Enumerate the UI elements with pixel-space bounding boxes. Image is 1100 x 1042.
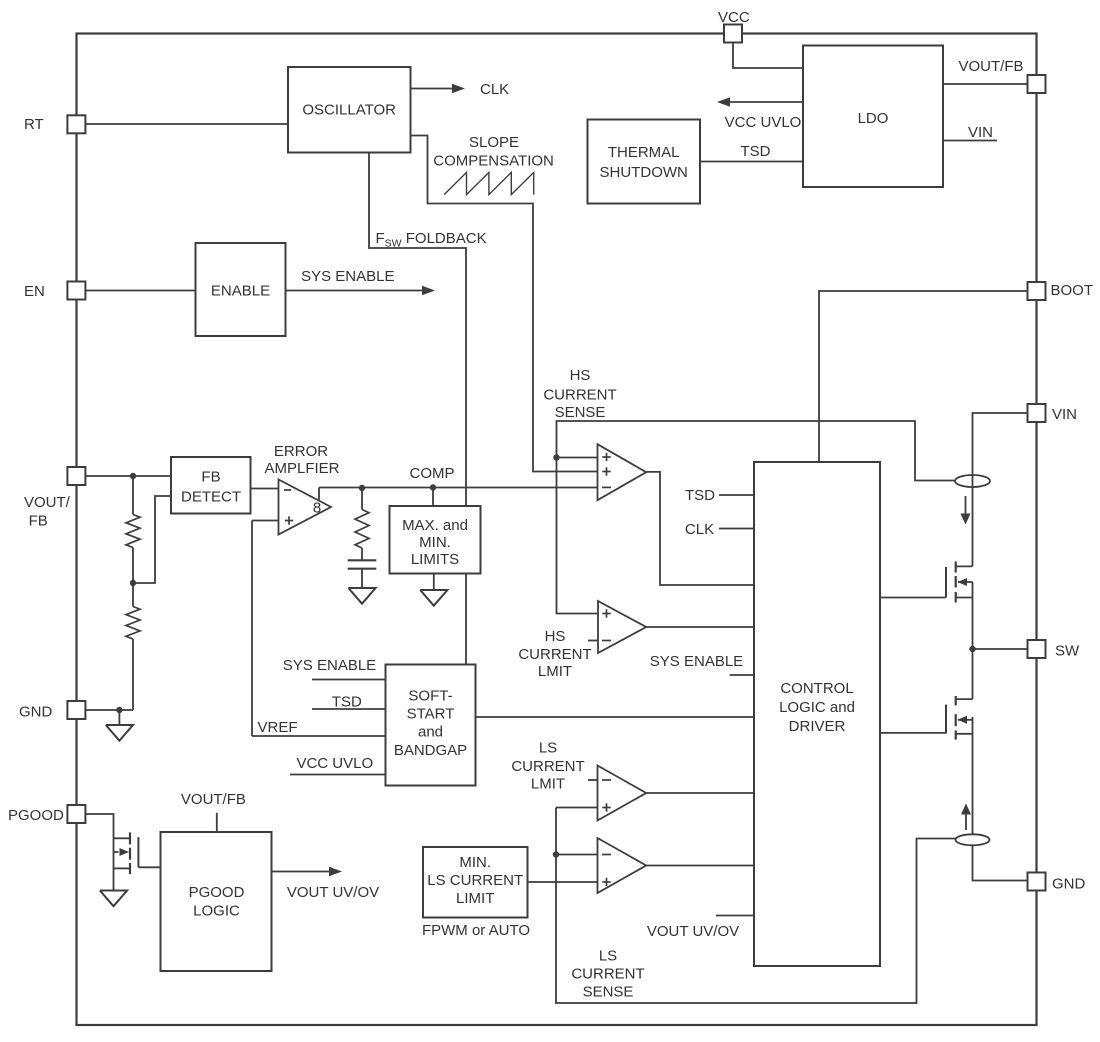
svg-text:8: 8: [313, 500, 321, 517]
svg-text:AMPLFIER: AMPLFIER: [264, 460, 339, 477]
svg-text:MIN.: MIN.: [459, 854, 491, 871]
svg-text:LS CURRENT: LS CURRENT: [427, 872, 523, 889]
svg-text:CURRENT: CURRENT: [518, 646, 591, 663]
svg-text:START: START: [407, 706, 455, 723]
svg-text:LIMITS: LIMITS: [411, 551, 459, 568]
svg-text:LS: LS: [539, 740, 557, 757]
svg-text:CURRENT: CURRENT: [543, 387, 616, 404]
svg-text:CONTROL: CONTROL: [780, 680, 853, 697]
svg-text:LOGIC: LOGIC: [193, 903, 240, 920]
svg-text:OSCILLATOR: OSCILLATOR: [302, 102, 396, 119]
svg-text:THERMAL: THERMAL: [608, 144, 680, 161]
svg-text:DETECT: DETECT: [181, 489, 241, 506]
svg-text:VCC: VCC: [718, 9, 750, 26]
svg-text:CURRENT: CURRENT: [511, 758, 584, 775]
svg-text:LIMIT: LIMIT: [456, 890, 494, 907]
svg-text:VREF: VREF: [257, 719, 297, 736]
svg-text:PGOOD: PGOOD: [8, 807, 64, 824]
svg-text:PGOOD: PGOOD: [189, 884, 245, 901]
svg-text:SW: SW: [1055, 643, 1080, 660]
svg-text:SLOPE: SLOPE: [469, 134, 519, 151]
svg-text:BOOT: BOOT: [1051, 282, 1094, 299]
svg-text:VOUT/: VOUT/: [24, 494, 71, 511]
svg-text:HS: HS: [545, 628, 566, 645]
svg-text:VCC UVLO: VCC UVLO: [725, 114, 802, 131]
svg-text:MIN.: MIN.: [419, 534, 451, 551]
svg-text:and: and: [418, 724, 443, 741]
svg-text:MAX. and: MAX. and: [402, 517, 468, 534]
svg-text:GND: GND: [19, 704, 53, 721]
svg-text:VOUT/FB: VOUT/FB: [181, 791, 246, 808]
svg-text:ERROR: ERROR: [274, 443, 328, 460]
svg-text:RT: RT: [24, 116, 44, 133]
svg-text:VOUT UV/OV: VOUT UV/OV: [647, 923, 739, 940]
svg-text:CURRENT: CURRENT: [571, 966, 644, 983]
svg-text:EN: EN: [24, 283, 45, 300]
svg-text:LMIT: LMIT: [538, 663, 572, 680]
svg-text:VIN: VIN: [1052, 406, 1077, 423]
svg-text:LDO: LDO: [858, 110, 889, 127]
svg-text:DRIVER: DRIVER: [789, 718, 846, 735]
svg-text:TSD: TSD: [741, 143, 771, 160]
svg-text:TSD: TSD: [685, 487, 715, 504]
svg-text:ENABLE: ENABLE: [211, 283, 270, 300]
svg-text:BANDGAP: BANDGAP: [394, 742, 467, 759]
svg-text:SYS ENABLE: SYS ENABLE: [283, 657, 376, 674]
svg-text:VCC UVLO: VCC UVLO: [296, 755, 373, 772]
svg-text:SHUTDOWN: SHUTDOWN: [600, 164, 688, 181]
svg-text:SYS ENABLE: SYS ENABLE: [301, 268, 394, 285]
svg-text:SYS ENABLE: SYS ENABLE: [650, 653, 743, 670]
svg-text:HS: HS: [570, 367, 591, 384]
svg-text:SENSE: SENSE: [583, 984, 634, 1001]
svg-text:CLK: CLK: [685, 521, 714, 538]
svg-text:LS: LS: [599, 948, 617, 965]
svg-text:SOFT-: SOFT-: [408, 688, 452, 705]
svg-text:GND: GND: [1052, 876, 1086, 893]
svg-text:LOGIC and: LOGIC and: [779, 699, 855, 716]
svg-text:VOUT UV/OV: VOUT UV/OV: [287, 884, 379, 901]
svg-text:CLK: CLK: [480, 81, 509, 98]
svg-text:COMPENSATION: COMPENSATION: [433, 153, 554, 170]
svg-text:TSD: TSD: [332, 694, 362, 711]
svg-text:FB: FB: [29, 513, 48, 530]
svg-text:VIN: VIN: [968, 124, 993, 141]
svg-text:SENSE: SENSE: [555, 404, 606, 421]
svg-text:FB: FB: [201, 469, 220, 486]
svg-text:VOUT/FB: VOUT/FB: [958, 58, 1023, 75]
svg-text:LMIT: LMIT: [531, 776, 565, 793]
svg-text:FPWM or AUTO: FPWM or AUTO: [422, 922, 530, 939]
svg-text:COMP: COMP: [410, 465, 455, 482]
